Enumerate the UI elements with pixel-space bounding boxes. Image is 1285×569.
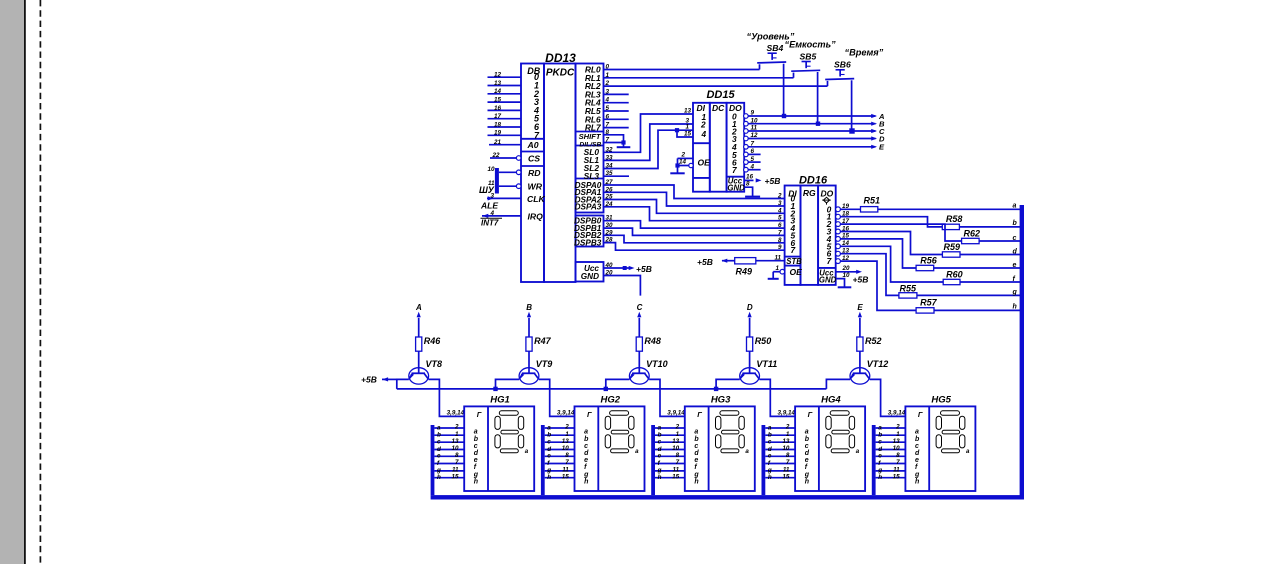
svg-text:7: 7	[455, 459, 459, 466]
svg-text:d: d	[1013, 249, 1018, 256]
resistor R46	[416, 336, 442, 351]
wire VT8 collector to HG1 common pins 3,9,14	[429, 379, 465, 416]
wire segment a to HG2 pin 2	[545, 424, 575, 432]
wire RL5 stub	[604, 110, 629, 112]
node E (digit select net)	[857, 303, 863, 337]
ground at DD15 GND	[745, 196, 760, 198]
svg-text:a: a	[915, 429, 919, 436]
svg-text:3,9,14: 3,9,14	[778, 410, 796, 417]
svg-text:13: 13	[451, 438, 459, 445]
wire VT9 emitter to +5V rail	[493, 379, 519, 391]
svg-text:VT9: VT9	[536, 359, 553, 369]
svg-text:9: 9	[778, 244, 782, 251]
wire DD15 DO6 stub	[748, 161, 760, 163]
svg-text:RD: RD	[528, 168, 541, 178]
svg-text:c: c	[694, 443, 698, 450]
wire DSPB0 to DD16 DI4	[604, 221, 785, 228]
DD16 DO0-7 outputs (inverted), pins 19-12	[826, 203, 850, 266]
svg-text:B: B	[526, 303, 532, 312]
bus tap for HG2	[541, 425, 545, 495]
svg-text:2: 2	[785, 424, 790, 431]
svg-text:CS: CS	[528, 154, 540, 164]
svg-text:HG2: HG2	[601, 395, 621, 406]
wire SHIFT tied to DIL/SB and ground	[604, 135, 624, 147]
page frame dashed line	[39, 0, 41, 564]
wire segment c to HG1 pin 13	[434, 438, 464, 446]
pushbutton SB6 "Vremya"	[825, 47, 883, 131]
wire segment c to HG3 pin 13	[655, 438, 685, 446]
DD13 pin A0 (21)	[489, 139, 539, 150]
svg-text:D: D	[747, 303, 753, 312]
wire DSPB1 to DD16 DI5	[604, 228, 785, 235]
wire segment c to HG2 pin 13	[545, 438, 575, 446]
svg-text:2: 2	[675, 424, 680, 431]
svg-text:7: 7	[676, 459, 680, 466]
svg-text:h: h	[474, 478, 478, 485]
svg-text:e: e	[915, 457, 919, 464]
svg-text:Γ: Γ	[918, 410, 923, 419]
svg-text:13: 13	[893, 438, 901, 445]
svg-text:h: h	[878, 474, 882, 481]
wire segment g to HG1 pin 11	[434, 467, 464, 475]
svg-text:INT7: INT7	[481, 219, 499, 228]
svg-text:11: 11	[488, 180, 495, 187]
svg-text:b: b	[584, 436, 589, 443]
DD13 DB0-7 data bus pins 12-19	[488, 72, 541, 141]
resistor R55 on segment net g from DD16 DO6	[840, 254, 1020, 298]
svg-text:8: 8	[778, 237, 782, 244]
svg-text:16: 16	[494, 105, 502, 112]
svg-text:R50: R50	[755, 336, 772, 346]
wire segment d to HG4 pin 10	[765, 445, 795, 453]
svg-text:c: c	[878, 439, 882, 446]
svg-text:+5В: +5В	[361, 375, 377, 385]
svg-text:a: a	[635, 448, 639, 455]
DD15 OE pins 2,14 tied to ground	[675, 152, 693, 173]
wire DD16 Ucc pin20 to +5V	[836, 265, 862, 274]
svg-text:1: 1	[565, 431, 569, 438]
node B (digit select net)	[526, 303, 532, 337]
svg-text:15: 15	[782, 473, 790, 480]
wire/net D from DD15 DO3	[748, 134, 885, 143]
svg-text:b: b	[547, 432, 551, 439]
svg-text:a: a	[547, 424, 551, 431]
svg-text:a: a	[966, 448, 970, 455]
svg-text:7: 7	[565, 459, 569, 466]
wire SL3 stub	[604, 175, 630, 177]
svg-text:2: 2	[895, 424, 900, 431]
svg-text:VT12: VT12	[867, 359, 889, 369]
wire VT10 collector to HG3 common pins 3,9,14	[649, 379, 685, 416]
svg-text:b: b	[474, 436, 479, 443]
wire segment a to HG1 pin 2	[434, 424, 464, 432]
svg-text:e: e	[878, 453, 882, 460]
svg-text:h: h	[584, 478, 588, 485]
wire DD13 Ucc pin40 to +5V	[604, 266, 635, 270]
svg-text:R49: R49	[736, 266, 753, 276]
svg-text:b: b	[658, 432, 662, 439]
svg-text:6: 6	[778, 222, 782, 229]
svg-text:13: 13	[562, 438, 570, 445]
resistor R57 on segment net h from DD16 DO7	[840, 261, 1020, 313]
svg-text:e: e	[768, 453, 772, 460]
svg-text:R55: R55	[900, 284, 918, 294]
svg-text:13: 13	[494, 80, 502, 87]
svg-text:“Время”: “Время”	[845, 47, 884, 57]
wire RL4 stub	[604, 102, 629, 104]
svg-text:Γ: Γ	[808, 410, 813, 419]
svg-text:3: 3	[778, 200, 782, 207]
svg-text:10: 10	[487, 166, 495, 173]
wire RL0 to SB4	[604, 69, 760, 71]
svg-text:15: 15	[494, 97, 502, 104]
svg-text:15: 15	[684, 131, 692, 138]
svg-text:RL7: RL7	[585, 123, 601, 133]
control bus bar ShU	[479, 168, 499, 195]
svg-text:b: b	[694, 436, 699, 443]
svg-text:c: c	[915, 443, 919, 450]
wire segment d to HG1 pin 10	[434, 445, 464, 453]
wire segment d to HG3 pin 10	[655, 445, 685, 453]
resistor R49 pullup of STB to +5V	[722, 258, 785, 277]
svg-text:8: 8	[676, 452, 680, 459]
svg-text:e: e	[1013, 262, 1017, 269]
wire segment d to HG2 pin 10	[545, 445, 575, 453]
svg-text:10: 10	[843, 272, 851, 279]
wire segment f to HG4 pin 7	[765, 459, 795, 467]
svg-text:7: 7	[827, 256, 832, 266]
svg-text:12: 12	[494, 72, 502, 79]
DD13 pin RD (10) inverted	[487, 166, 541, 178]
svg-text:1: 1	[775, 265, 779, 272]
svg-text:c: c	[584, 443, 588, 450]
wire SL2 to DD15 pins 1,15	[604, 128, 694, 168]
svg-text:a: a	[694, 429, 698, 436]
ground at DD16 OE	[768, 278, 779, 280]
wire DSPB3 to DD16 DI7	[604, 243, 785, 251]
svg-text:2: 2	[454, 424, 459, 431]
resistor R51 on segment net a from DD16 DO0	[840, 195, 1020, 212]
wire/net C from DD15 DO2	[748, 127, 885, 136]
wire DSPA3 to DD16 DI3	[604, 207, 785, 221]
svg-text:SB4: SB4	[767, 43, 784, 53]
svg-text:3,9,14: 3,9,14	[557, 410, 575, 417]
svg-text:GND: GND	[581, 272, 599, 281]
svg-text:19: 19	[494, 130, 502, 137]
power +5V rail feeding VT8-VT12 emitters	[361, 375, 826, 389]
wire segment e to HG3 pin 8	[655, 452, 685, 460]
svg-text:c: c	[437, 439, 441, 446]
svg-text:22: 22	[491, 152, 500, 159]
svg-text:h: h	[915, 478, 919, 485]
svg-text:h: h	[658, 474, 662, 481]
segment group bus (bottom horizontal)	[431, 495, 1024, 499]
resistor R50	[747, 336, 772, 351]
svg-text:a: a	[525, 448, 529, 455]
svg-text:b: b	[915, 436, 920, 443]
node C (digit select net)	[637, 303, 643, 337]
page margin gray bar	[0, 0, 25, 564]
svg-text:8: 8	[786, 452, 790, 459]
wire segment h to HG2 pin 15	[545, 473, 575, 481]
wire segment b to HG3 pin 1	[655, 431, 685, 439]
svg-text:h: h	[437, 474, 441, 481]
svg-text:OE: OE	[698, 157, 711, 167]
svg-text:a: a	[745, 448, 749, 455]
resistor R48	[636, 336, 661, 351]
svg-text:DO: DO	[821, 188, 834, 198]
wire RL7 stub	[604, 127, 629, 129]
node INT7 (active low)	[481, 218, 503, 227]
pushbutton SB5 "Emkost"	[785, 40, 837, 124]
svg-text:7: 7	[732, 165, 737, 175]
svg-text:8: 8	[565, 452, 569, 459]
svg-text:14: 14	[679, 159, 687, 166]
wire segment h to HG1 pin 15	[434, 473, 464, 481]
svg-text:A: A	[415, 303, 422, 312]
wire SL1 to DD15 pin3	[604, 124, 694, 160]
wire segment f to HG2 pin 7	[545, 459, 575, 467]
svg-text:a: a	[768, 424, 772, 431]
bus tap for HG4	[762, 425, 766, 495]
svg-text:E: E	[857, 303, 863, 312]
svg-text:3: 3	[490, 193, 494, 200]
wire VT12 emitter to +5V rail	[826, 379, 850, 389]
wire segment c to HG5 pin 13	[876, 438, 906, 446]
resistor R60 on segment net f from DD16 DO5	[840, 246, 1020, 284]
wire segment f to HG3 pin 7	[655, 459, 685, 467]
svg-text:DD15: DD15	[706, 89, 735, 101]
wire/net E from DD15 DO4	[748, 143, 885, 152]
svg-text:h: h	[547, 474, 551, 481]
svg-text:CLK: CLK	[527, 194, 545, 204]
svg-text:4: 4	[701, 129, 707, 139]
DD13 pin CLK (3) from ALE	[487, 193, 545, 204]
wire R52 to VT12 base	[859, 351, 861, 373]
wire DD15 DO5 stub	[748, 153, 760, 155]
svg-text:b: b	[437, 432, 441, 439]
resistor R62 on segment net c from DD16 DO2	[840, 224, 1020, 244]
pushbutton SB4 "Uroven"	[747, 32, 795, 117]
junction SB5 on net B	[816, 122, 820, 126]
svg-text:a: a	[878, 424, 882, 431]
DD15 input pin numbers 13,3,1,15	[684, 108, 692, 138]
wire VT10 emitter to +5V rail	[604, 379, 630, 391]
wire segment b to HG4 pin 1	[765, 431, 795, 439]
svg-text:8: 8	[455, 452, 459, 459]
wire segment b to HG5 pin 1	[876, 431, 906, 439]
svg-text:R57: R57	[920, 298, 938, 308]
svg-text:HG1: HG1	[490, 395, 510, 406]
svg-text:R46: R46	[424, 336, 442, 346]
svg-text:DSPB3: DSPB3	[574, 238, 602, 247]
wire/net B from DD15 DO1	[748, 120, 885, 129]
wire segment b to HG1 pin 1	[434, 431, 464, 439]
wire segment a to HG5 pin 2	[876, 424, 906, 432]
svg-text:1: 1	[896, 431, 900, 438]
svg-text:a: a	[856, 448, 860, 455]
svg-text:HG3: HG3	[711, 395, 731, 406]
svg-text:c: c	[658, 439, 662, 446]
svg-text:SL3: SL3	[584, 171, 600, 181]
svg-text:h: h	[694, 478, 698, 485]
svg-text:b: b	[805, 436, 810, 443]
svg-text:VT8: VT8	[426, 359, 443, 369]
segment group bus (right vertical)	[1020, 205, 1024, 500]
svg-text:a: a	[437, 424, 441, 431]
svg-text:+5В: +5В	[765, 176, 781, 186]
display HG5 seven-segment indicator	[905, 395, 975, 491]
wire RL6 stub	[604, 118, 629, 120]
wire VT12 collector to HG5 common pins 3,9,14	[870, 379, 906, 416]
svg-text:7: 7	[778, 229, 782, 236]
svg-text:e: e	[437, 453, 441, 460]
wire segment e to HG1 pin 8	[434, 452, 464, 460]
resistor R58 on segment net b from DD16 DO1	[840, 214, 1020, 229]
svg-text:17: 17	[494, 113, 502, 120]
display HG4 seven-segment indicator	[795, 395, 865, 491]
svg-text:VT10: VT10	[646, 359, 668, 369]
svg-text:1: 1	[786, 431, 790, 438]
bus tap for HG1	[431, 425, 435, 495]
svg-text:Γ: Γ	[477, 410, 482, 419]
wire segment h to HG3 pin 15	[655, 473, 685, 481]
display HG2 seven-segment indicator	[575, 395, 645, 491]
wire segment g to HG4 pin 11	[765, 467, 795, 475]
wire segment a to HG3 pin 2	[655, 424, 685, 432]
transistor VT9 pnp	[519, 359, 552, 384]
svg-text:+5В: +5В	[853, 275, 869, 285]
svg-text:2: 2	[680, 152, 685, 159]
wire VT11 collector to HG4 common pins 3,9,14	[760, 379, 796, 416]
transistor VT10 pnp	[629, 359, 667, 384]
ic DD16 register RG	[785, 175, 837, 285]
wire segment g to HG3 pin 11	[655, 467, 685, 475]
ic DD13 keyboard/display controller PKDC	[361, 32, 1024, 500]
wire segment f to HG5 pin 7	[876, 459, 906, 467]
wire DIL/SB	[604, 140, 626, 144]
svg-text:c: c	[547, 439, 551, 446]
svg-text:IRQ: IRQ	[528, 211, 544, 221]
svg-text:7: 7	[786, 459, 790, 466]
svg-text:C: C	[637, 303, 643, 312]
svg-text:b: b	[768, 432, 772, 439]
svg-text:2: 2	[777, 193, 782, 200]
wire DD16 GND pin10 to ground	[836, 272, 850, 287]
svg-text:c: c	[1013, 235, 1017, 242]
svg-text:WR: WR	[528, 182, 543, 192]
DD16 OE pin1 to ground	[773, 265, 784, 279]
wire segment b to HG2 pin 1	[545, 431, 575, 439]
svg-text:DSPA3: DSPA3	[575, 203, 602, 212]
svg-text:STB: STB	[786, 257, 802, 266]
svg-text:5: 5	[778, 215, 782, 222]
svg-text:8: 8	[896, 452, 900, 459]
svg-text:h: h	[805, 478, 809, 485]
svg-text:h: h	[1013, 303, 1017, 310]
svg-text:h: h	[768, 474, 772, 481]
svg-text:c: c	[768, 439, 772, 446]
svg-text:1: 1	[455, 431, 459, 438]
svg-text:4: 4	[777, 207, 782, 214]
svg-text:4: 4	[489, 210, 494, 217]
svg-text:DC: DC	[712, 103, 725, 113]
svg-text:b: b	[878, 432, 882, 439]
wire segment h to HG4 pin 15	[765, 473, 795, 481]
wire DSPA2 to DD16 DI2	[604, 200, 785, 214]
bus tap for HG5	[872, 425, 876, 495]
svg-text:SHIFT: SHIFT	[579, 132, 602, 141]
svg-text:GND: GND	[727, 184, 745, 193]
svg-text:Γ: Γ	[587, 410, 592, 419]
DD13 pin CS (22) inverted	[490, 152, 540, 163]
svg-text:HG4: HG4	[821, 395, 841, 406]
svg-text:“Емкость”: “Емкость”	[785, 40, 837, 50]
wire R48 to VT10 base	[638, 351, 640, 373]
wire SL0 to DD15 pin13	[604, 114, 694, 152]
wire R46 to VT8 base	[418, 351, 420, 373]
wire RL2 to SB6	[604, 85, 828, 87]
wire segment h to HG5 pin 15	[876, 473, 906, 481]
svg-text:R52: R52	[865, 336, 882, 346]
svg-text:e: e	[547, 453, 551, 460]
svg-text:a: a	[1013, 203, 1017, 210]
svg-text:e: e	[694, 457, 698, 464]
wire RL3 stub	[604, 93, 629, 95]
wire DSPB2 to DD16 DI6	[604, 235, 785, 243]
ground at DD16 GND	[838, 286, 852, 288]
ground at SHIFT/DIL	[617, 146, 631, 148]
wire DD13 GND pin20	[604, 276, 641, 296]
svg-text:R59: R59	[944, 242, 961, 252]
svg-text:2: 2	[564, 424, 569, 431]
DD13 pin IRQ (4) to INT7	[482, 210, 543, 221]
svg-text:15: 15	[451, 473, 459, 480]
svg-text:18: 18	[494, 121, 502, 128]
svg-text:3,9,14: 3,9,14	[447, 410, 465, 417]
svg-text:7: 7	[791, 245, 796, 255]
svg-text:+5В: +5В	[697, 257, 713, 267]
wire DD15 Ucc pin16 to +5V	[744, 174, 761, 183]
resistor R56 on segment net e from DD16 DO4	[840, 239, 1020, 271]
transistor VT11 pnp	[740, 359, 778, 384]
wire R50 to VT11 base	[749, 351, 751, 373]
wire segment e to HG4 pin 8	[765, 452, 795, 460]
wire VT9 collector to HG2 common pins 3,9,14	[539, 379, 575, 416]
svg-text:13: 13	[672, 438, 680, 445]
wire segment e to HG2 pin 8	[545, 452, 575, 460]
wire VT8 emitter to +5V rail	[397, 379, 409, 389]
node A (digit select net)	[415, 303, 422, 337]
svg-text:+5В: +5В	[636, 264, 652, 274]
svg-text:SB6: SB6	[834, 60, 851, 70]
svg-text:15: 15	[893, 473, 901, 480]
wire DD15 DO7 stub	[748, 169, 760, 171]
display HG3 seven-segment indicator	[685, 395, 755, 491]
svg-text:a: a	[584, 429, 588, 436]
resistor R52	[857, 336, 882, 351]
svg-text:14: 14	[494, 88, 502, 95]
wire/net A from DD15 DO0	[748, 112, 884, 121]
ground at DD15 OE	[670, 172, 684, 174]
svg-text:R60: R60	[946, 270, 963, 280]
svg-text:g: g	[1012, 289, 1018, 296]
svg-text:8: 8	[746, 181, 750, 188]
wire segment a to HG4 pin 2	[765, 424, 795, 432]
transistor VT8 pnp	[409, 359, 442, 384]
svg-text:c: c	[474, 443, 478, 450]
wire RL1 to SB5	[604, 77, 794, 79]
